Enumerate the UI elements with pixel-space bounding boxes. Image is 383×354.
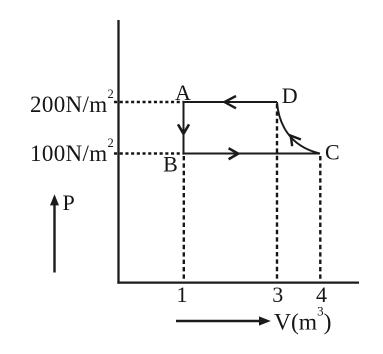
P axis (vertical axis line): [117, 20, 119, 284]
wire B to C (bottom edge): [184, 153, 321, 155]
svg-text:200N/m2: 200N/m2: [30, 87, 114, 117]
dashed guide V=3 below node D: [276, 104, 278, 282]
arrowhead on curve pointing up-left toward D: [291, 136, 301, 147]
svg-text:100N/m2: 100N/m2: [30, 136, 114, 166]
dashed guide at P=200 to node A: [114, 101, 184, 103]
V axis (horizontal axis line): [117, 281, 359, 283]
arrowhead on D-A pointing left: [225, 96, 237, 108]
svg-text:C: C: [325, 139, 340, 164]
svg-text:B: B: [163, 152, 178, 177]
svg-text:D: D: [282, 83, 298, 108]
curve C to D: [277, 102, 320, 154]
svg-text:1: 1: [177, 282, 188, 307]
dashed guide at P=100 to node B: [114, 152, 184, 154]
V axis legend arrow: [176, 320, 260, 322]
wire D to A (top edge): [184, 101, 278, 103]
svg-text:V(m3): V(m3): [274, 304, 331, 336]
svg-text:A: A: [175, 80, 191, 105]
arrowhead on B-C pointing right: [229, 148, 239, 159]
svg-text:P: P: [63, 190, 75, 215]
dashed guide V=4 below node C: [319, 156, 321, 282]
P axis legend arrow: [53, 205, 55, 273]
wire A to B (left edge): [183, 102, 185, 154]
dashed guide V=1 below node B: [183, 156, 185, 282]
svg-text:3: 3: [272, 282, 283, 307]
arrowhead on A-B pointing down: [178, 124, 189, 133]
